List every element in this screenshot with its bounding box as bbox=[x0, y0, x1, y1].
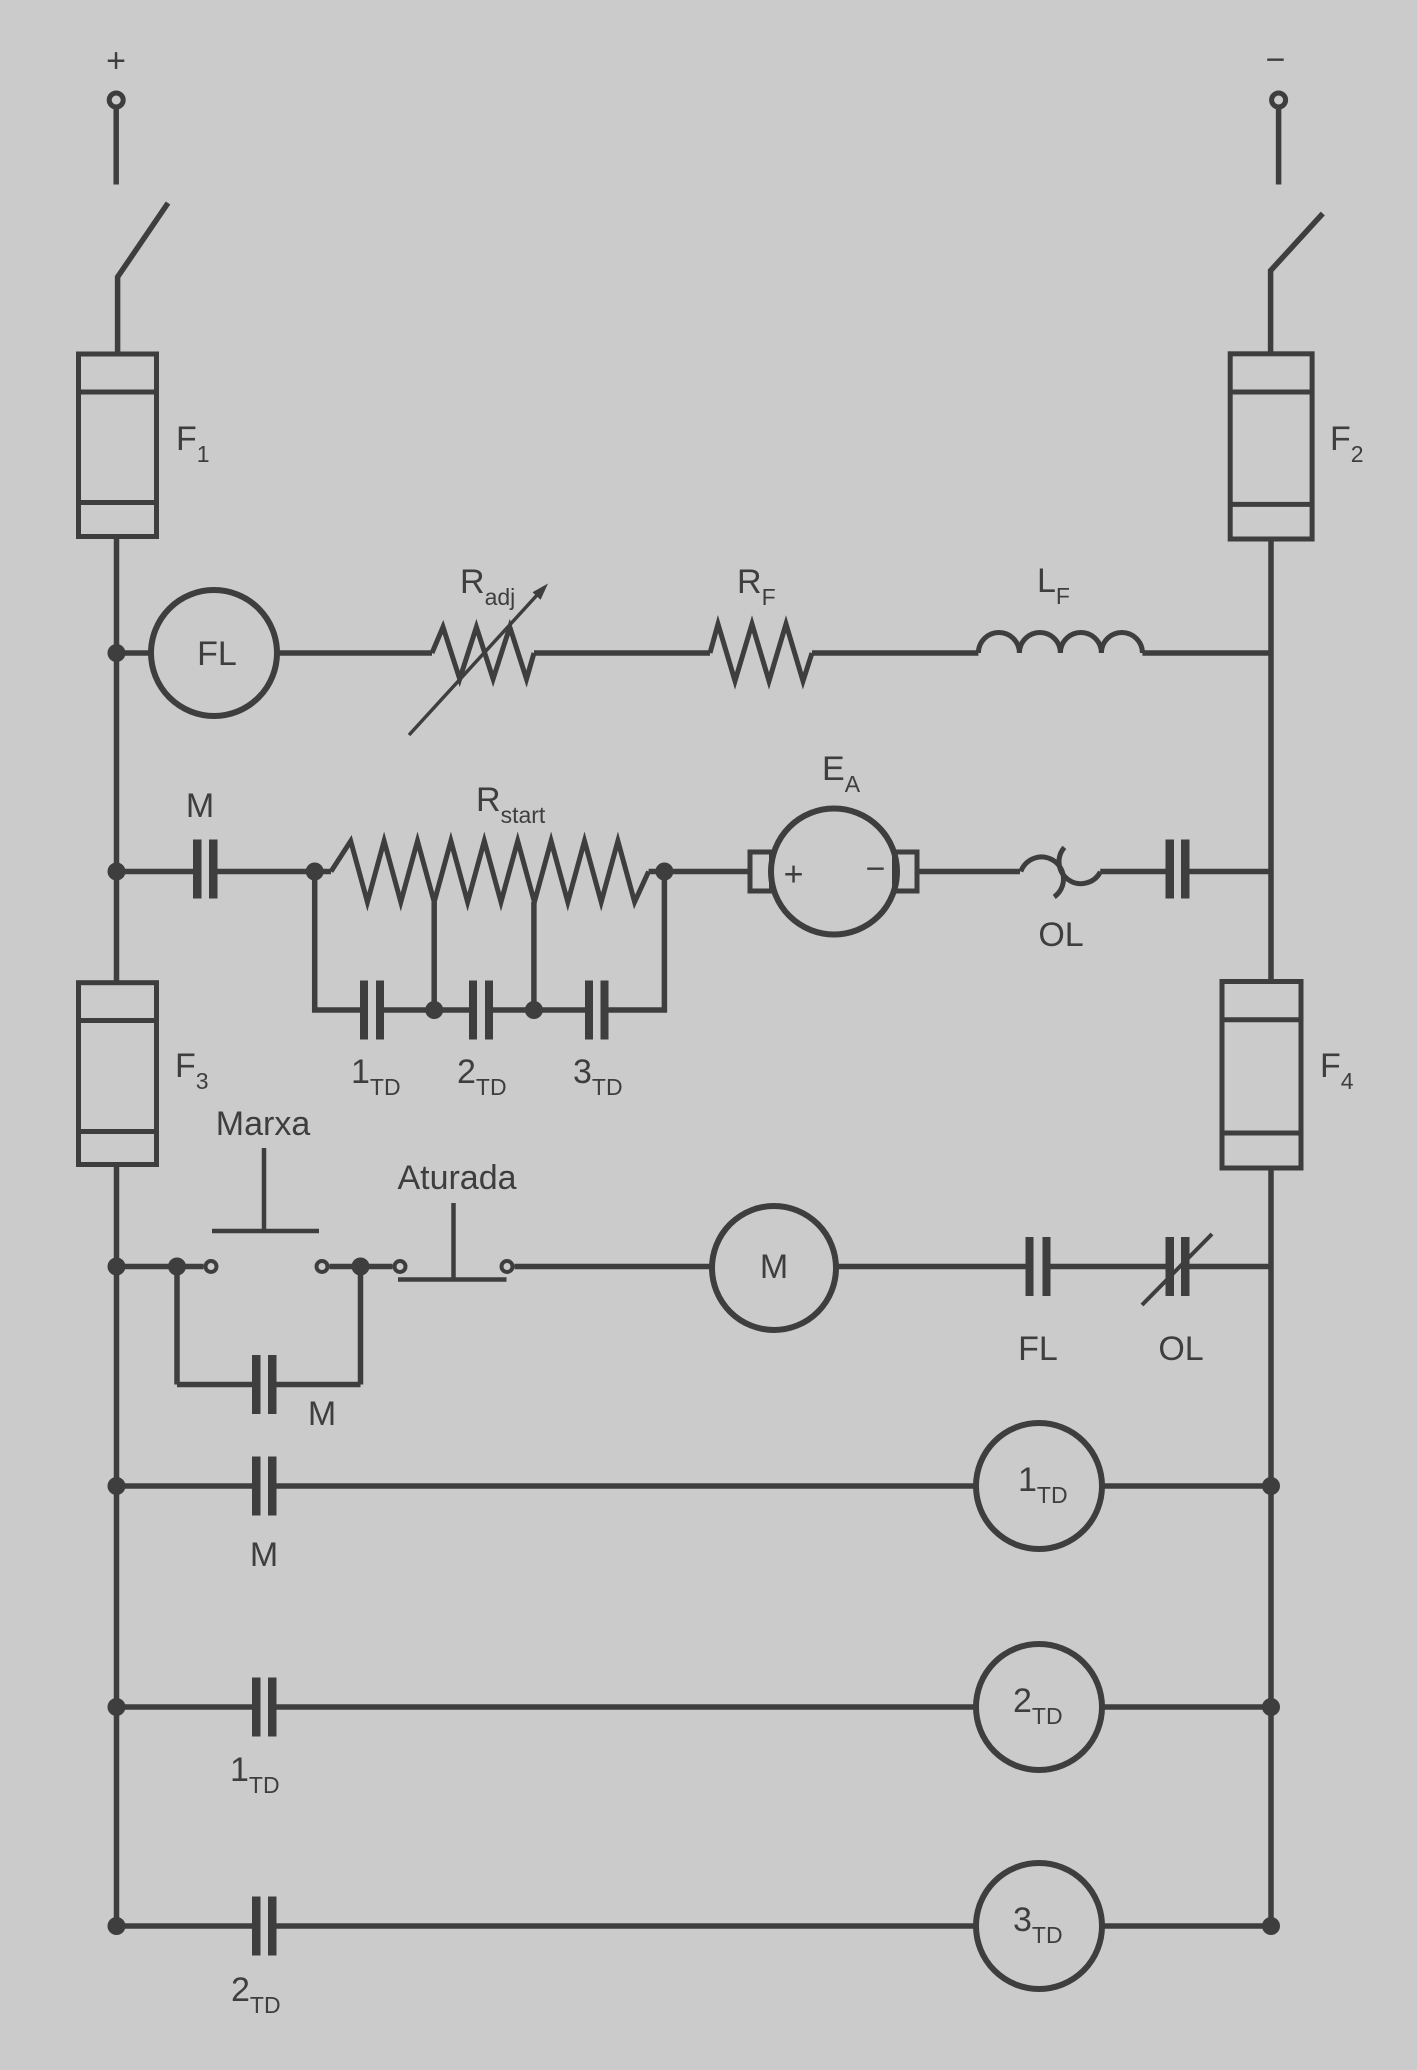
contact OL NC slash bbox=[1142, 1234, 1212, 1305]
wire left bus to 1TD contact row 3 bbox=[117, 1704, 253, 1710]
wire 3TD coil to right bus bbox=[1102, 1923, 1271, 1929]
wire LF to right bus bbox=[1142, 650, 1271, 656]
wire EA to OL heater bbox=[917, 869, 1020, 875]
pushbutton Aturada (NC stop button) bbox=[398, 1203, 507, 1280]
svg-text:M: M bbox=[250, 1536, 278, 1574]
wire tap 2 to Rstart bbox=[531, 902, 537, 1010]
node B (Rstart right tap) bbox=[655, 863, 673, 881]
fuse F3 bbox=[79, 983, 157, 1165]
pushbutton Aturada terminal right bbox=[502, 1261, 513, 1272]
svg-text:M: M bbox=[186, 787, 214, 825]
svg-text:−: − bbox=[1266, 41, 1286, 79]
pushbutton Marxa terminal right bbox=[317, 1261, 328, 1272]
pushbutton Marxa terminal left bbox=[206, 1261, 217, 1272]
rheostat arrow of Radj bbox=[409, 584, 548, 736]
wire seal branch left drop bbox=[174, 1267, 180, 1385]
wire FL contact to OL contact bbox=[1051, 1264, 1166, 1270]
resistor RF bbox=[710, 624, 812, 681]
coil M (motor contactor) bbox=[712, 1206, 836, 1330]
overload heater OL bbox=[1021, 847, 1101, 897]
contact M (NO, armature circuit) bbox=[193, 840, 218, 899]
resistor Radj (rheostat) bbox=[432, 627, 534, 679]
junction dot right bus row 3 bbox=[1262, 1698, 1280, 1716]
svg-text:FL: FL bbox=[1018, 1330, 1058, 1368]
svg-text:+: + bbox=[784, 856, 804, 894]
wire M contact to 1TD coil bbox=[277, 1483, 976, 1489]
wire left bus F3 to bottom bbox=[114, 1165, 120, 1927]
node C (tap junction 1) bbox=[425, 1001, 443, 1019]
svg-text:−: − bbox=[866, 850, 886, 888]
node A (Rstart left tap) bbox=[306, 863, 324, 881]
contact 1TD (NO, row 3) bbox=[252, 1678, 277, 1737]
svg-text:OL: OL bbox=[1158, 1330, 1203, 1368]
coil 1TD (time delay relay 1) bbox=[976, 1423, 1102, 1549]
junction dot left bus row 2 bbox=[108, 1477, 126, 1495]
fuse F4 bbox=[1222, 982, 1301, 1169]
wire 1TD coil to right bus bbox=[1102, 1483, 1271, 1489]
junction dot right bus row 2 bbox=[1262, 1477, 1280, 1495]
wire negative terminal lead bbox=[1276, 109, 1282, 185]
wire seal branch right horizontal bbox=[277, 1382, 361, 1388]
wire Rstart to EA bbox=[649, 869, 750, 875]
svg-text:OL: OL bbox=[1038, 916, 1083, 954]
wire right bus F4 to bottom bbox=[1268, 1168, 1274, 1926]
fuse F1 bbox=[79, 354, 157, 537]
svg-text:Marxa: Marxa bbox=[216, 1105, 311, 1143]
wire FL to Radj bbox=[277, 650, 432, 656]
pushbutton Aturada terminal left bbox=[395, 1261, 406, 1272]
junction dot left bus control row bbox=[108, 1258, 126, 1276]
wire 2TD coil to right bus bbox=[1102, 1704, 1271, 1710]
wire M contact to Rstart bbox=[218, 869, 332, 875]
wire tap 1 to Rstart bbox=[431, 902, 437, 1010]
wire 2TD to 3TD bbox=[493, 1007, 585, 1013]
wire Marxa to Aturada bbox=[330, 1264, 393, 1270]
coil 2TD (time delay relay 2) bbox=[976, 1644, 1102, 1770]
wire seal branch right drop bbox=[358, 1267, 364, 1385]
contact OL (NC overload) bbox=[1166, 1237, 1190, 1296]
svg-text:+: + bbox=[106, 42, 126, 80]
contact 2TD (NO bypass) bbox=[469, 981, 493, 1040]
svg-text:FL: FL bbox=[197, 635, 237, 673]
contact 2TD (NO, row 4) bbox=[252, 1897, 277, 1956]
junction dot left bus armature row bbox=[108, 863, 126, 881]
junction dot left bus row 3 bbox=[108, 1698, 126, 1716]
contact FL (NO) bbox=[1026, 1237, 1051, 1296]
wire 1TD to 2TD bbox=[384, 1007, 469, 1013]
inductor LF (shunt field winding) bbox=[978, 632, 1142, 653]
positive terminal bbox=[109, 93, 123, 107]
junction dot right bus row 4 bbox=[1262, 1917, 1280, 1935]
wire 1TD contact to 2TD coil bbox=[277, 1704, 976, 1710]
wire bypass left drop bbox=[315, 872, 360, 1011]
motor armature EA bbox=[750, 809, 917, 935]
fuse F2 bbox=[1230, 354, 1312, 539]
junction dot left bus row 4 bbox=[108, 1917, 126, 1935]
svg-text:M: M bbox=[760, 1248, 788, 1286]
wire OL contact to right bus bbox=[1190, 1264, 1272, 1270]
contact M (NO, row 2) bbox=[252, 1457, 277, 1516]
wire left bus F1 to F3 bbox=[114, 537, 120, 983]
switch SW1 (left disconnect blade) bbox=[118, 203, 168, 354]
coil 3TD (time delay relay 3) bbox=[976, 1863, 1102, 1989]
wire left bus to FL coil bbox=[117, 650, 152, 656]
wire left bus to M contact row 2 bbox=[117, 1483, 253, 1489]
resistor Rstart bbox=[331, 841, 649, 902]
wire bypass right rise bbox=[609, 872, 665, 1011]
svg-text:M: M bbox=[308, 1395, 336, 1433]
switch SW2 (right disconnect blade) bbox=[1271, 214, 1323, 354]
wire OL heater to contact bbox=[1100, 869, 1165, 875]
wire left bus to Marxa bbox=[117, 1264, 204, 1270]
wire seal branch left horizontal bbox=[177, 1382, 252, 1388]
node F (seal branch right) bbox=[352, 1258, 370, 1276]
wire 2TD contact to 3TD coil bbox=[277, 1923, 976, 1929]
svg-text:Aturada: Aturada bbox=[397, 1159, 516, 1197]
pushbutton Marxa (NO start button) bbox=[212, 1148, 319, 1231]
wire left bus to M contact bbox=[117, 869, 194, 875]
contact M (NO, armature right) bbox=[1166, 840, 1190, 899]
junction dot left bus field row bbox=[108, 644, 126, 662]
contact 3TD (NO bypass) bbox=[585, 981, 609, 1040]
wire RF to LF bbox=[812, 650, 978, 656]
contact M (NO seal-in) bbox=[252, 1355, 277, 1414]
wire contact to right bus bbox=[1190, 869, 1272, 875]
wire Aturada to M coil bbox=[515, 1264, 713, 1270]
node D (tap junction 2) bbox=[525, 1001, 543, 1019]
wire right bus F2 to F4 bbox=[1268, 539, 1274, 983]
wire Radj to RF bbox=[534, 650, 710, 656]
wire M coil to FL contact bbox=[836, 1264, 1026, 1270]
coil FL (field loss relay) bbox=[151, 590, 277, 716]
negative terminal bbox=[1272, 93, 1286, 107]
wire left bus to 2TD contact row 4 bbox=[117, 1923, 253, 1929]
contact 1TD (NO bypass) bbox=[360, 981, 384, 1040]
node E (seal branch left) bbox=[168, 1258, 186, 1276]
wire positive terminal lead bbox=[113, 109, 119, 185]
